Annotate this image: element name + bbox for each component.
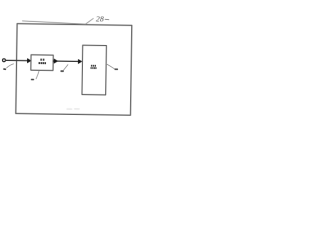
dash after numeral 28: [105, 18, 109, 20]
input terminal circle: [3, 59, 6, 62]
lead line numeral 12 (input): [7, 64, 14, 68]
right box text line 2: [90, 67, 96, 69]
left box text line 1: [40, 59, 44, 61]
right box text line 1: [91, 65, 96, 67]
numeral 18 smudge: [114, 69, 118, 71]
numeral 16 smudge: [60, 70, 63, 72]
numeral 14 smudge: [31, 79, 34, 81]
lead line numeral 16 (wire): [64, 65, 68, 71]
left box text line 2: [39, 62, 47, 64]
arrowhead connector at right box input: [78, 59, 81, 63]
wire between boxes: [53, 60, 81, 62]
input wire: [5, 59, 28, 61]
arrowhead connector after left box: [54, 59, 58, 63]
enclosure box 28: [16, 24, 132, 116]
lead line to label 28: [22, 17, 93, 24]
right box: [82, 45, 106, 95]
numeral 12 smudge: [3, 68, 6, 70]
arrowhead connector at left box input: [27, 59, 31, 63]
svg-text:28: 28: [96, 14, 104, 23]
faint artifact smudges: [66, 108, 80, 110]
lead line numeral 18 (right box): [106, 64, 114, 69]
lead line numeral 14 (left box): [36, 71, 39, 79]
left box: [31, 55, 53, 71]
